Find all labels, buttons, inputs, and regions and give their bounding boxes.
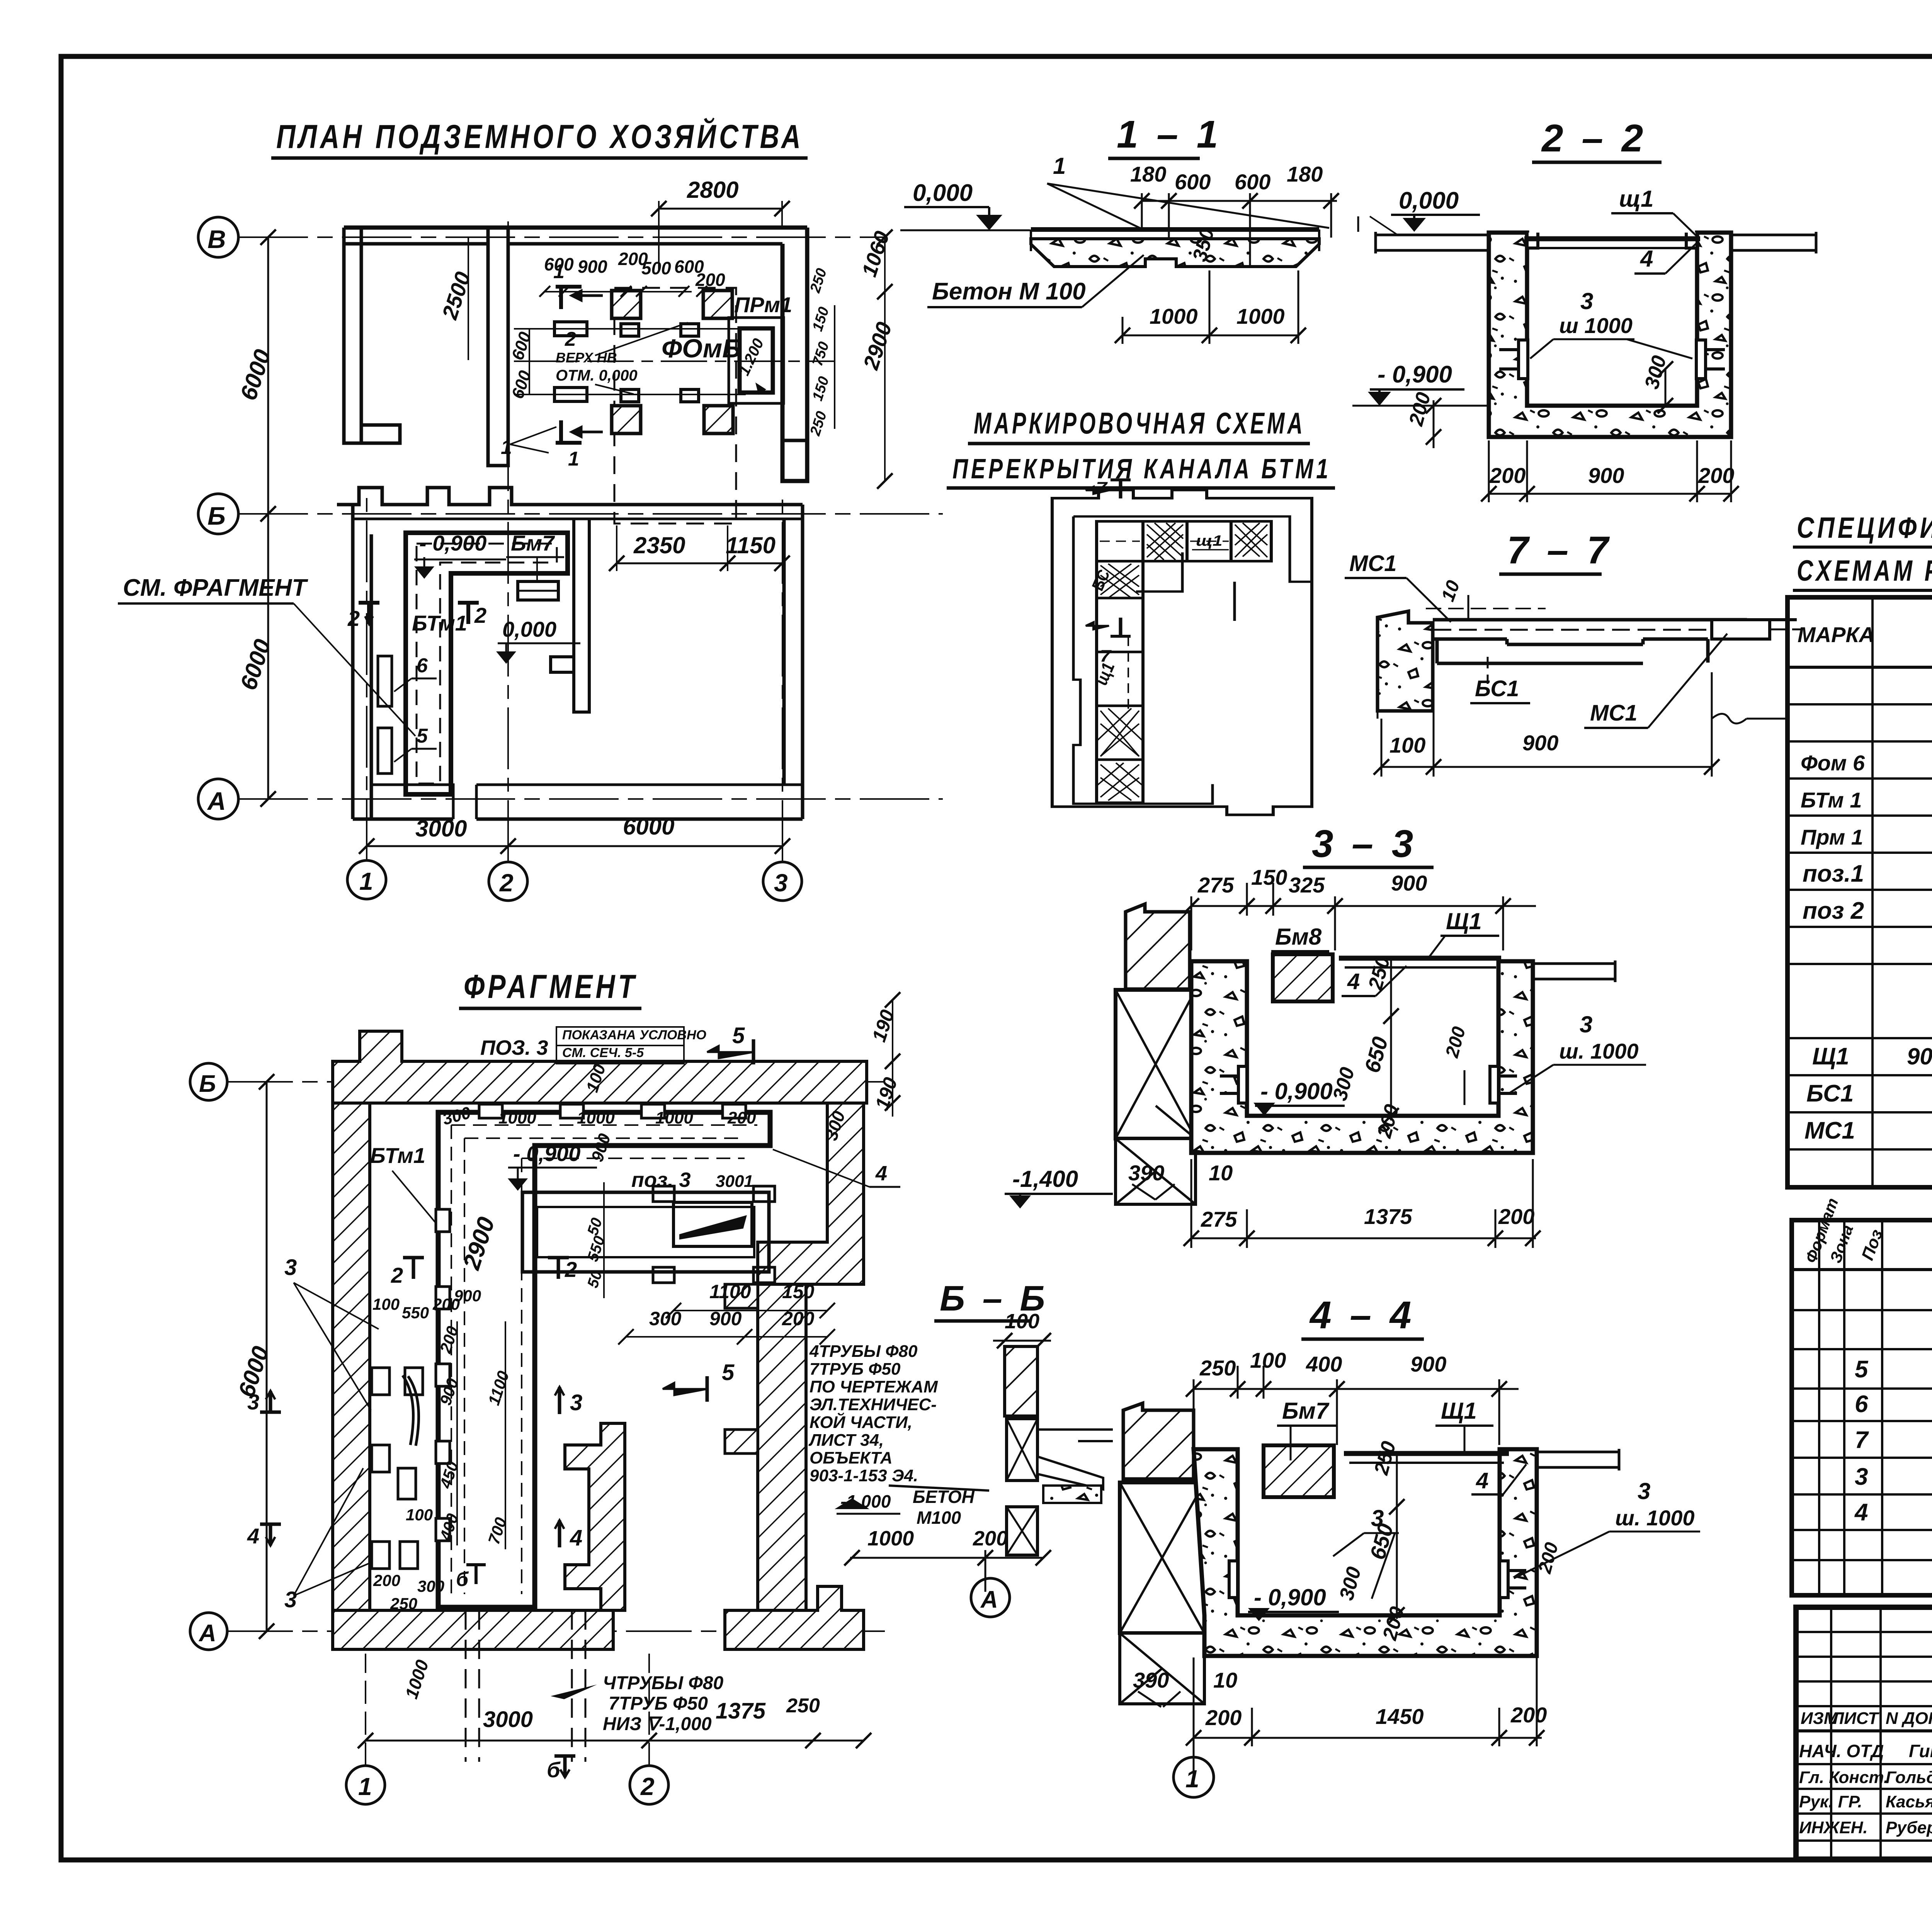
svg-text:2: 2 xyxy=(640,1773,655,1800)
svg-text:БС1: БС1 xyxy=(1475,676,1519,701)
3 section markers xyxy=(260,1391,281,1545)
svg-text:-1.000: -1.000 xyxy=(840,1491,891,1511)
svg-text:100: 100 xyxy=(1389,733,1425,757)
svg-text:200: 200 xyxy=(727,1108,756,1127)
X block xyxy=(1007,1419,1037,1555)
svg-text:1000: 1000 xyxy=(655,1108,693,1127)
svg-text:600: 600 xyxy=(1235,170,1270,194)
svg-text:150: 150 xyxy=(1251,865,1287,889)
top wall double xyxy=(344,226,807,230)
top wall xyxy=(333,1031,867,1103)
svg-text:900: 900 xyxy=(709,1308,742,1329)
svg-text:НИЗ ∇-1,000: НИЗ ∇-1,000 xyxy=(603,1714,712,1734)
Бм7 beam in plan xyxy=(518,581,558,600)
svg-text:БТм1: БТм1 xyxy=(370,1143,425,1168)
svg-text:ПО ЧЕРТЕЖАМ: ПО ЧЕРТЕЖАМ xyxy=(810,1377,938,1396)
svg-text:600: 600 xyxy=(1175,170,1211,194)
svg-text:СМ. ФРАГМЕНТ: СМ. ФРАГМЕНТ xyxy=(123,575,308,601)
Бм8 beam xyxy=(1273,954,1333,1001)
svg-text:щ1: щ1 xyxy=(1619,186,1653,212)
left panels strip xyxy=(1097,561,1143,802)
precast column X xyxy=(1120,1482,1204,1704)
svg-text:БС1: БС1 xyxy=(1806,1080,1854,1107)
svg-text:1100: 1100 xyxy=(709,1281,751,1302)
svg-text:300: 300 xyxy=(417,1577,444,1595)
svg-text:4: 4 xyxy=(247,1524,259,1548)
svg-text:ПОКАЗАНА УСЛОВНО: ПОКАЗАНА УСЛОВНО xyxy=(562,1028,706,1042)
left masonry wall xyxy=(1123,1403,1194,1479)
svg-text:N ДОКУМ: N ДОКУМ xyxy=(1886,1709,1932,1728)
svg-text:ш. 1000: ш. 1000 xyxy=(1615,1506,1695,1530)
svg-text:10: 10 xyxy=(1209,1161,1233,1185)
svg-text:КОЙ ЧАСТИ,: КОЙ ЧАСТИ, xyxy=(810,1412,912,1432)
svg-text:МС1: МС1 xyxy=(1804,1117,1855,1144)
svg-text:7: 7 xyxy=(1100,646,1112,665)
svg-text:Касьянова: Касьянова xyxy=(1886,1792,1932,1811)
svg-text:БТм1: БТм1 xyxy=(412,611,467,635)
svg-text:3: 3 xyxy=(570,1390,582,1415)
svg-text:2: 2 xyxy=(391,1263,403,1287)
svg-text:2: 2 xyxy=(565,1257,577,1282)
svg-text:ш. 1000: ш. 1000 xyxy=(1559,1039,1639,1063)
inner contour xyxy=(1073,517,1313,804)
axis А xyxy=(198,779,238,819)
svg-text:250: 250 xyxy=(786,1695,820,1717)
svg-text:2350: 2350 xyxy=(633,532,685,558)
svg-text:Бм7: Бм7 xyxy=(511,531,555,555)
svg-text:100: 100 xyxy=(406,1506,433,1524)
top wall with pilasters xyxy=(353,518,803,520)
svg-text:2800: 2800 xyxy=(687,177,738,203)
channel concrete xyxy=(1191,961,1533,1153)
svg-text:1: 1 xyxy=(358,1773,372,1800)
svg-text:Гольденшлюгер: Гольденшлюгер xyxy=(1886,1768,1932,1787)
heading: ФРАГМЕНТ xyxy=(459,968,641,1008)
small rects on left wall xyxy=(378,656,392,773)
left wall xyxy=(353,505,371,819)
top arm dims xyxy=(440,1103,756,1129)
svg-text:5: 5 xyxy=(417,725,428,747)
floor slab lines left xyxy=(1376,232,1816,253)
right wall top piece xyxy=(758,1103,864,1284)
svg-text:ЭЛ.ТЕХНИЧЕС-: ЭЛ.ТЕХНИЧЕС- xyxy=(810,1395,937,1414)
svg-text:550: 550 xyxy=(402,1304,429,1322)
svg-text:4 – 4: 4 – 4 xyxy=(1309,1294,1415,1337)
svg-text:Бм7: Бм7 xyxy=(1282,1398,1330,1424)
svg-text:Гл. Конст.: Гл. Конст. xyxy=(1799,1768,1888,1787)
svg-text:7: 7 xyxy=(1096,478,1108,497)
svg-text:ОТМ. 0,000: ОТМ. 0,000 xyxy=(556,367,638,384)
bottom wall right piece xyxy=(725,1586,864,1649)
svg-text:ЛИСТ: ЛИСТ xyxy=(1831,1709,1879,1728)
pipe note xyxy=(603,1673,723,1734)
left dims small xyxy=(372,1287,512,1613)
svg-text:100: 100 xyxy=(1250,1348,1286,1372)
axis Б xyxy=(190,1063,227,1100)
svg-text:1: 1 xyxy=(568,448,579,470)
column axes 1 2 3 xyxy=(347,860,386,899)
svg-text:4: 4 xyxy=(1476,1468,1488,1493)
svg-text:900: 900 xyxy=(454,1287,481,1305)
svg-text:250: 250 xyxy=(1199,1356,1236,1380)
svg-text:7ТРУБ Ф50: 7ТРУБ Ф50 xyxy=(810,1360,901,1379)
Щ1 slab xyxy=(1339,956,1501,961)
svg-text:600: 600 xyxy=(544,254,574,274)
svg-text:325: 325 xyxy=(1289,873,1325,897)
hatched footing squares xyxy=(612,291,733,433)
svg-text:- 0,900: - 0,900 xyxy=(1254,1584,1326,1610)
column axes 1 2 xyxy=(346,1766,385,1804)
top arm closures xyxy=(479,1104,746,1118)
svg-text:б: б xyxy=(456,1568,469,1591)
svg-text:Бм8: Бм8 xyxy=(1275,924,1322,950)
6000 dim xyxy=(266,1082,268,1631)
svg-text:6: 6 xyxy=(1855,1391,1868,1418)
svg-text:А: А xyxy=(980,1586,998,1613)
pipes text block xyxy=(808,1342,938,1485)
svg-text:200: 200 xyxy=(1510,1703,1547,1727)
БТм1 channel thick outline xyxy=(406,533,568,794)
heading: 3-3 xyxy=(1303,822,1434,867)
svg-text:1000: 1000 xyxy=(577,1108,615,1127)
right wall xyxy=(784,505,803,819)
svg-text:390: 390 xyxy=(1133,1668,1169,1692)
svg-text:В: В xyxy=(207,225,226,253)
svg-text:- 0,900: - 0,900 xyxy=(419,531,486,555)
svg-text:поз.1: поз.1 xyxy=(1803,860,1864,887)
heading: 4-4 xyxy=(1301,1294,1424,1339)
svg-text:БТм 1: БТм 1 xyxy=(1801,788,1862,812)
svg-text:7ТРУБ Ф50: 7ТРУБ Ф50 xyxy=(609,1693,708,1714)
svg-text:4: 4 xyxy=(570,1525,582,1550)
beam xyxy=(1433,620,1747,663)
svg-text:ИНЖЕН.: ИНЖЕН. xyxy=(1799,1818,1868,1837)
axis Б xyxy=(198,494,238,534)
svg-text:ПРм1: ПРм1 xyxy=(734,292,792,317)
svg-text:6: 6 xyxy=(417,654,428,677)
svg-text:900: 900 xyxy=(1391,871,1427,895)
svg-text:3: 3 xyxy=(1855,1464,1868,1490)
crosshatched panels top xyxy=(1147,523,1267,560)
central pier xyxy=(565,1423,625,1610)
pos3 chute box xyxy=(522,1186,775,1283)
svg-text:300: 300 xyxy=(716,1172,744,1191)
svg-text:2: 2 xyxy=(565,328,576,350)
svg-text:3000: 3000 xyxy=(483,1707,533,1732)
fundament dashed outline xyxy=(614,288,736,524)
svg-text:-1,400: -1,400 xyxy=(1012,1166,1078,1192)
section marks 1 xyxy=(556,287,582,443)
svg-text:Фом 6: Фом 6 xyxy=(1801,751,1865,775)
svg-text:Щ1: Щ1 xyxy=(1446,908,1482,934)
svg-text:МАРКИРОВОЧНАЯ СХЕМА: МАРКИРОВОЧНАЯ СХЕМА xyxy=(974,406,1305,440)
svg-text:2: 2 xyxy=(499,869,514,897)
svg-text:Щ1: Щ1 xyxy=(1812,1043,1849,1070)
floor lines right xyxy=(1537,1449,1619,1470)
inner wall xyxy=(551,519,589,712)
svg-text:3: 3 xyxy=(774,869,788,897)
svg-text:НАЧ. ОТД: НАЧ. ОТД xyxy=(1799,1741,1884,1761)
svg-text:Прм 1: Прм 1 xyxy=(1801,825,1863,849)
svg-text:1000: 1000 xyxy=(498,1108,536,1127)
svg-text:СМ. СЕЧ. 5-5: СМ. СЕЧ. 5-5 xyxy=(562,1045,644,1060)
floor bits right xyxy=(1037,1457,1103,1489)
svg-text:200: 200 xyxy=(973,1527,1008,1550)
svg-text:А: А xyxy=(198,1620,216,1647)
svg-text:0,000: 0,000 xyxy=(502,617,556,641)
svg-text:А: А xyxy=(207,787,226,815)
svg-text:1000: 1000 xyxy=(1150,304,1198,328)
svg-text:100: 100 xyxy=(1005,1310,1039,1333)
svg-text:М100: М100 xyxy=(917,1508,961,1528)
svg-text:400: 400 xyxy=(1306,1352,1342,1376)
svg-text:ш 1000: ш 1000 xyxy=(1559,313,1633,338)
svg-text:200: 200 xyxy=(1205,1705,1242,1730)
svg-text:3: 3 xyxy=(1638,1478,1650,1504)
svg-text:250: 250 xyxy=(390,1595,417,1613)
svg-text:1375: 1375 xyxy=(716,1698,766,1724)
axis circle А xyxy=(971,1578,1010,1617)
precast column X xyxy=(1116,990,1196,1204)
lower building xyxy=(337,488,803,819)
svg-text:Гин: Гин xyxy=(1909,1741,1932,1761)
svg-text:200: 200 xyxy=(695,270,725,290)
svg-text:МС1: МС1 xyxy=(1590,700,1637,726)
bottom wall left piece xyxy=(333,1610,613,1649)
3000 6000 bottom dims xyxy=(367,845,782,847)
svg-text:ПЕРЕКРЫТИЯ КАНАЛА БТМ1: ПЕРЕКРЫТИЯ КАНАЛА БТМ1 xyxy=(952,454,1331,484)
embedded plates xyxy=(1499,340,1725,379)
svg-text:- 0,900: - 0,900 xyxy=(1378,361,1452,388)
svg-text:Щ1: Щ1 xyxy=(1441,1398,1477,1424)
svg-text:0,000: 0,000 xyxy=(913,180,973,206)
slab section xyxy=(1031,227,1319,232)
svg-text:5: 5 xyxy=(722,1360,735,1385)
outer wall outline xyxy=(1052,490,1312,815)
svg-text:100: 100 xyxy=(372,1295,400,1313)
svg-text:275: 275 xyxy=(1197,873,1234,897)
wall hatched xyxy=(1005,1346,1037,1416)
svg-text:4ТРУБЫ Ф80: 4ТРУБЫ Ф80 xyxy=(809,1342,918,1361)
БТм1 channel thick outline xyxy=(438,1112,770,1607)
embedded plates xyxy=(1229,1561,1526,1598)
Бм7 beam xyxy=(1264,1445,1334,1497)
svg-text:- 0,900: - 0,900 xyxy=(1260,1078,1333,1104)
pipes below xyxy=(466,1610,585,1762)
svg-text:4: 4 xyxy=(1347,969,1360,994)
svg-text:180: 180 xyxy=(1130,162,1166,186)
axis А xyxy=(190,1613,227,1650)
heading: 2-2 xyxy=(1532,117,1662,162)
svg-text:1: 1 xyxy=(1185,1765,1199,1793)
axis В xyxy=(198,217,238,257)
heading: СПЕЦИФИКАЦИЯ xyxy=(1793,512,1932,590)
bottom wall xyxy=(353,818,803,821)
left grid xyxy=(1796,1631,1932,1633)
Щ1 slab xyxy=(1344,1451,1509,1456)
svg-text:4: 4 xyxy=(875,1162,887,1185)
left wall xyxy=(333,1103,370,1649)
closures on vertical arm xyxy=(436,1209,450,1541)
svg-text:1150: 1150 xyxy=(726,532,776,558)
svg-text:200: 200 xyxy=(1489,463,1526,488)
svg-text:ЧТРУБЫ Ф80: ЧТРУБЫ Ф80 xyxy=(603,1673,723,1693)
svg-text:3 – 3: 3 – 3 xyxy=(1312,822,1417,865)
svg-text:3: 3 xyxy=(284,1587,297,1612)
svg-text:900: 900 xyxy=(1522,731,1558,755)
embedded plates xyxy=(1220,1066,1517,1103)
svg-text:ЛИСТ 34,: ЛИСТ 34, xyxy=(808,1431,884,1450)
heading: Б-Б xyxy=(934,1279,1049,1321)
left corridor wall A xyxy=(344,228,361,443)
svg-text:1000: 1000 xyxy=(1236,304,1285,328)
channel concrete xyxy=(1194,1449,1537,1656)
svg-text:7 – 7: 7 – 7 xyxy=(1507,529,1612,572)
svg-text:1375: 1375 xyxy=(1364,1204,1412,1229)
svg-text:ПОЗ. 3: ПОЗ. 3 xyxy=(480,1036,548,1059)
svg-text:МС1: МС1 xyxy=(1349,551,1396,576)
svg-text:150: 150 xyxy=(782,1281,815,1302)
bottom dims 200 900 200 xyxy=(1489,440,1731,502)
svg-text:ОБЪЕКТА: ОБЪЕКТА xyxy=(810,1448,893,1467)
svg-text:б: б xyxy=(547,1758,561,1782)
svg-text:1450: 1450 xyxy=(1376,1704,1424,1729)
left masonry wall xyxy=(1126,904,1190,989)
concrete pier xyxy=(1378,611,1433,711)
heading: ПЛАН ПОДЗЕМНОГО ХОЗЯЙСТВА xyxy=(271,118,808,158)
svg-text:900: 900 xyxy=(1410,1352,1446,1376)
small embedded rects xyxy=(554,322,699,402)
right wall lower piece xyxy=(758,1284,806,1610)
svg-text:Б: Б xyxy=(199,1071,216,1097)
axis circle 1 xyxy=(1173,1757,1214,1797)
svg-text:ФРАГМЕНТ: ФРАГМЕНТ xyxy=(464,968,638,1005)
svg-text:903-1 - 153 - КЖИ- Щ1: 903-1 - 153 - КЖИ- Щ1 xyxy=(1907,1044,1932,1069)
svg-text:- 0,900: - 0,900 xyxy=(513,1141,580,1166)
svg-text:Рук. ГР.: Рук. ГР. xyxy=(1799,1792,1862,1811)
heading: МАРКИРОВОЧНАЯ СХЕМА / ПЕРЕКРЫТИЯ КАНАЛА БТм1 xyxy=(947,406,1335,488)
6000 vertical dims left xyxy=(267,237,269,799)
svg-text:1: 1 xyxy=(744,1172,753,1191)
svg-text:1 – 1: 1 – 1 xyxy=(1117,113,1222,156)
svg-text:5: 5 xyxy=(732,1023,745,1048)
svg-text:1000: 1000 xyxy=(867,1527,914,1550)
svg-text:СПЕЦИФИКАЦИЯ ЭЛЕМЕНТОВ К МА: СПЕЦИФИКАЦИЯ ЭЛЕМЕНТОВ К МАРКИРОВОЧНЫМ xyxy=(1797,512,1932,544)
svg-text:поз. 3: поз. 3 xyxy=(631,1168,691,1192)
heading: 7-7 xyxy=(1499,529,1612,574)
svg-text:2 – 2: 2 – 2 xyxy=(1541,117,1647,160)
svg-text:4: 4 xyxy=(1854,1499,1868,1526)
svg-text:10: 10 xyxy=(1213,1668,1237,1692)
svg-text:щ1: щ1 xyxy=(1196,532,1223,549)
svg-text:ПЛАН ПОДЗЕМНОГО ХОЗЯЙСТВА: ПЛАН ПОДЗЕМНОГО ХОЗЯЙСТВА xyxy=(276,118,804,155)
svg-text:0,000: 0,000 xyxy=(1399,187,1459,214)
svg-text:5: 5 xyxy=(1855,1356,1869,1383)
svg-text:7: 7 xyxy=(1855,1427,1869,1453)
top small dims 600 900 200 500 600 200 xyxy=(544,249,725,290)
svg-text:2: 2 xyxy=(474,603,486,627)
slab Щ1 over cavity xyxy=(1524,236,1700,241)
svg-text:3: 3 xyxy=(284,1255,297,1280)
top edge notches xyxy=(1527,233,1538,248)
floor lines right xyxy=(1533,960,1615,982)
svg-text:МАРКА: МАРКА xyxy=(1798,622,1874,647)
svg-text:поз 2: поз 2 xyxy=(1803,898,1864,924)
svg-text:3: 3 xyxy=(1580,1011,1592,1037)
upper building walls xyxy=(344,228,807,481)
svg-text:200: 200 xyxy=(1498,1204,1534,1229)
top panels strip xyxy=(1097,521,1271,561)
svg-text:200: 200 xyxy=(1698,463,1734,488)
corridor wall B xyxy=(488,228,508,466)
right end piece xyxy=(1712,620,1770,639)
svg-text:1: 1 xyxy=(501,436,512,459)
svg-text:275: 275 xyxy=(1201,1207,1237,1231)
svg-text:900: 900 xyxy=(1588,463,1624,488)
svg-text:3: 3 xyxy=(247,1390,259,1414)
svg-text:390: 390 xyxy=(1128,1161,1164,1185)
right wall xyxy=(782,228,807,481)
svg-text:900: 900 xyxy=(578,257,607,277)
heading: 1-1 xyxy=(1108,113,1222,158)
embedded items column xyxy=(372,1368,423,1569)
svg-text:2: 2 xyxy=(347,606,360,631)
svg-text:ВЕРХ НВ: ВЕРХ НВ xyxy=(556,350,617,365)
svg-text:3: 3 xyxy=(1580,288,1593,314)
svg-text:903-1-153 Э4.: 903-1-153 Э4. xyxy=(810,1466,918,1485)
svg-text:Б: Б xyxy=(207,501,226,530)
svg-text:1: 1 xyxy=(1053,153,1066,179)
svg-text:180: 180 xyxy=(1287,162,1323,186)
svg-text:БЕТОН: БЕТОН xyxy=(913,1487,975,1507)
svg-text:300: 300 xyxy=(649,1308,682,1329)
svg-text:1: 1 xyxy=(359,867,373,895)
svg-text:СХЕМАМ РАСПОЛОЖЕННЫМ НА ДАН: СХЕМАМ РАСПОЛОЖЕННЫМ НА ДАННОМ ЛИСТЕ xyxy=(1797,554,1932,587)
svg-text:200: 200 xyxy=(373,1571,400,1589)
svg-text:Бетон М 100: Бетон М 100 xyxy=(932,278,1086,305)
svg-text:500: 500 xyxy=(641,258,671,278)
svg-text:200: 200 xyxy=(782,1308,815,1329)
concrete U body xyxy=(1489,233,1731,437)
svg-text:Руберовская: Руберовская xyxy=(1886,1818,1932,1837)
svg-text:4: 4 xyxy=(1640,246,1653,272)
